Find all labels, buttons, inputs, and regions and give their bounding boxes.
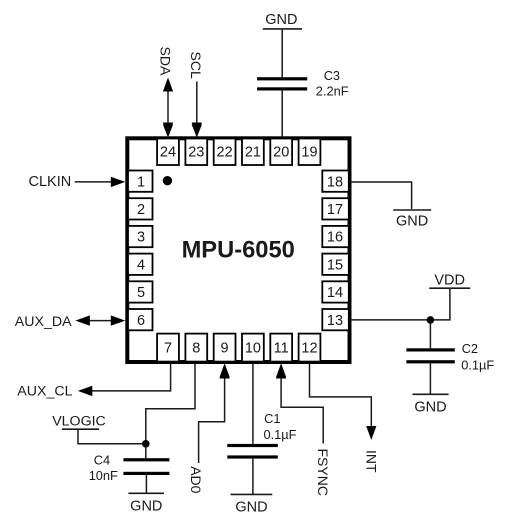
capacitor C1 — [227, 444, 277, 459]
wire CLKIN arrow into pin 1 — [75, 177, 126, 187]
svg-text:14: 14 — [327, 285, 343, 301]
wire AD0 arrow up into pin 9 — [199, 364, 230, 463]
wire C1 to ground — [252, 459, 254, 495]
IC U1 MPU-6050 body — [127, 138, 349, 362]
wire SCL arrow into pin 23 — [192, 82, 202, 137]
pin 20 — [270, 139, 292, 166]
svg-text:18: 18 — [327, 174, 343, 190]
svg-text:17: 17 — [327, 202, 343, 218]
svg-text:C3: C3 — [324, 68, 340, 83]
pin 7 — [157, 334, 179, 362]
pin 14 — [322, 281, 349, 302]
pin 21 — [242, 139, 264, 166]
wire pin 10 down to C1 — [252, 362, 254, 444]
svg-text:8: 8 — [192, 341, 200, 357]
pin 3 — [128, 226, 153, 247]
wire GND bar to C3 top plate — [281, 29, 283, 77]
svg-text:19: 19 — [301, 144, 317, 160]
svg-text:AUX_CL: AUX_CL — [17, 383, 72, 399]
svg-text:3: 3 — [137, 230, 145, 246]
svg-text:MPU-6050: MPU-6050 — [182, 238, 295, 264]
capacitor C4 — [123, 458, 169, 475]
svg-text:C4: C4 — [94, 453, 110, 468]
svg-text:16: 16 — [327, 230, 343, 246]
wire pin 7 down and left to AUX_CL arrow — [78, 361, 171, 396]
svg-text:13: 13 — [327, 313, 343, 329]
wire AD0 arrowhead tip overlay at IC bottom edge — [220, 363, 230, 377]
pin 5 — [128, 281, 153, 302]
pin 1 — [128, 171, 153, 192]
svg-text:AUX_DA: AUX_DA — [15, 314, 72, 330]
svg-text:C1: C1 — [264, 411, 280, 426]
svg-text:GND: GND — [235, 499, 267, 515]
svg-text:0.1µF: 0.1µF — [461, 358, 494, 373]
wire FSYNC arrow up into pin 11 — [276, 364, 323, 444]
pin 16 — [322, 226, 349, 247]
pin 24 — [157, 139, 179, 166]
svg-text:20: 20 — [273, 144, 289, 160]
wire C4 to ground — [145, 475, 147, 493]
ground GND below C1 — [231, 494, 273, 515]
pin 8 — [185, 334, 207, 362]
svg-text:GND: GND — [414, 399, 446, 415]
svg-text:5: 5 — [137, 285, 145, 301]
pin 22 — [214, 139, 236, 166]
wire SDA arrowhead tip overlay at IC edge — [163, 125, 173, 138]
pin 4 — [128, 254, 153, 275]
svg-text:INT: INT — [363, 450, 379, 473]
pin 15 — [322, 254, 349, 275]
svg-text:FSYNC: FSYNC — [315, 449, 331, 496]
pin 1 marker dot — [163, 176, 172, 185]
ground GND net above C3 — [263, 12, 302, 29]
pin 17 — [322, 198, 349, 219]
wire junction up to pin 8 — [146, 362, 195, 444]
wire pin 12 to INT arrow — [310, 362, 377, 440]
ground GND below C4 — [128, 493, 164, 514]
pin 12 — [299, 334, 321, 362]
junction dot VLOGIC / C4 / pin 8 — [142, 440, 150, 448]
svg-text:10: 10 — [245, 341, 261, 357]
svg-text:CLKIN: CLKIN — [29, 174, 72, 190]
svg-text:4: 4 — [137, 257, 145, 273]
svg-text:0.1µF: 0.1µF — [264, 427, 297, 442]
svg-text:SCL: SCL — [188, 52, 204, 79]
wire junction down to C2 — [429, 320, 431, 348]
wire pin 18 to GND — [352, 182, 412, 209]
svg-text:23: 23 — [188, 144, 204, 160]
pin 6 — [128, 309, 153, 330]
wire SCL arrowhead tip overlay at IC edge — [192, 125, 202, 138]
wire SDA bidirectional arrow into pin 24 — [163, 78, 173, 137]
wire AUX_DA bidirectional arrow into pin 6 — [75, 315, 125, 325]
svg-text:GND: GND — [396, 213, 428, 229]
svg-text:SDA: SDA — [157, 47, 173, 76]
net VLOGIC label — [52, 413, 106, 429]
svg-text:6: 6 — [137, 313, 145, 329]
svg-text:22: 22 — [217, 144, 233, 160]
wire FSYNC arrowhead tip overlay at IC bottom edge — [276, 363, 286, 377]
wire C2 to ground — [429, 363, 431, 394]
svg-text:21: 21 — [245, 144, 261, 160]
wire VLOGIC to junction — [78, 429, 146, 444]
pin 9 — [214, 334, 236, 362]
svg-text:1: 1 — [137, 174, 145, 190]
wire pin 13 to VDD — [352, 288, 450, 320]
svg-text:GND: GND — [130, 498, 162, 514]
svg-text:GND: GND — [265, 12, 297, 28]
ground GND below C2 — [413, 394, 449, 415]
junction dot VDD / C2 / pin 13 — [427, 316, 435, 324]
svg-text:VDD: VDD — [434, 273, 465, 289]
pin 10 — [242, 334, 264, 362]
svg-text:11: 11 — [274, 341, 289, 357]
svg-text:12: 12 — [301, 341, 317, 357]
capacitor C2 — [406, 348, 454, 363]
power VDD net — [429, 273, 470, 289]
pin 19 — [299, 139, 321, 166]
capacitor C3 — [257, 77, 307, 90]
svg-text:AD0: AD0 — [188, 466, 204, 493]
wire junction down to C4 — [145, 444, 147, 458]
svg-text:15: 15 — [327, 257, 343, 273]
svg-text:C2: C2 — [462, 341, 478, 356]
pin 11 — [270, 334, 292, 362]
svg-text:VLOGIC: VLOGIC — [52, 413, 106, 429]
svg-text:2.2nF: 2.2nF — [316, 84, 349, 99]
svg-text:7: 7 — [164, 341, 172, 357]
svg-text:24: 24 — [160, 144, 176, 160]
pin 18 — [322, 171, 349, 192]
ground GND at pin 18 — [393, 210, 431, 229]
wire C3 bottom plate to pin 20 — [281, 91, 283, 138]
pin 13 — [322, 309, 349, 330]
svg-text:10nF: 10nF — [89, 468, 118, 483]
pin 23 — [185, 139, 207, 166]
pin 2 — [128, 198, 153, 219]
svg-text:9: 9 — [221, 341, 229, 357]
svg-text:2: 2 — [137, 202, 145, 218]
